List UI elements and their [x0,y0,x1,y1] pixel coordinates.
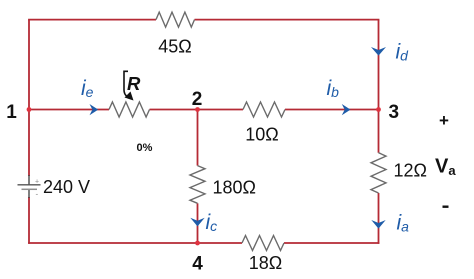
wire: right vertical upper segment (corner to 12ohm) [378,20,380,153]
resistor 12ohm (vertical, right branch) [371,153,386,193]
wire: top right segment (45ohm to top-right corner) [195,19,380,21]
svg-text:1: 1 [6,102,17,123]
svg-text:R: R [127,73,141,94]
current arrow i_b (right) [342,104,351,115]
current arrow i_c (down) [190,218,204,227]
wire: 180ohm down to node 4 [197,203,199,243]
svg-text:3: 3 [389,102,400,123]
svg-text:Va: Va [435,156,456,179]
wire: top left segment (node 1 to 45ohm) [28,19,156,21]
svg-text:0%: 0% [137,142,153,154]
wire: bottom left segment (left corner to 18ohm) [28,242,242,244]
wire: bottom right segment (18ohm to right corner) [284,242,379,244]
node 2 dot [195,107,200,112]
current arrow i_d (down) [371,47,386,56]
rheostat wiper arrow [124,71,128,96]
svg-text:45Ω: 45Ω [158,37,191,57]
svg-text:ia: ia [397,212,410,235]
svg-text:2: 2 [192,89,203,110]
current arrow i_a (down) [371,220,385,229]
resistor 10ohm (middle) [243,102,285,117]
svg-text:ib: ib [327,77,340,100]
resistor 45ohm (top) [156,12,195,27]
resistor 18ohm (bottom) [242,236,284,251]
svg-text:+: + [35,179,39,186]
wire: right vertical lower segment (12ohm to bottom-right corner) [378,193,380,244]
svg-text:12Ω: 12Ω [394,161,427,181]
svg-text:ic: ic [206,211,218,234]
node 4 dot [195,241,200,246]
svg-text:ie: ie [81,77,94,100]
wire: middle segment 10ohm to node 3 [285,109,379,111]
svg-text:18Ω: 18Ω [249,253,282,273]
battery V1 240V symbol [28,175,30,185]
wire: node 2 down to 180ohm [197,110,199,166]
svg-text:id: id [396,41,410,64]
wire: left vertical bottom segment (below battery) [28,197,30,244]
svg-text:-: - [36,190,39,199]
wire: left vertical top segment (node 1 loop, above battery) [28,20,30,176]
svg-text:180Ω: 180Ω [213,178,257,198]
node 3 dot [376,107,381,112]
current arrow i_e (right) [90,104,99,115]
svg-text:+: + [439,111,449,130]
resistor 180ohm (vertical, node 2 branch) [190,166,205,204]
polarity minus sign [443,206,449,208]
wire: middle segment rheostat R to 10ohm [150,109,244,111]
svg-text:10Ω: 10Ω [245,125,278,145]
svg-text:4: 4 [192,254,203,275]
resistor R rheostat zigzag [109,102,150,117]
node 1 dot [27,107,32,112]
wire: middle segment node 1 to rheostat R [29,109,109,111]
svg-text:240 V: 240 V [43,177,90,197]
